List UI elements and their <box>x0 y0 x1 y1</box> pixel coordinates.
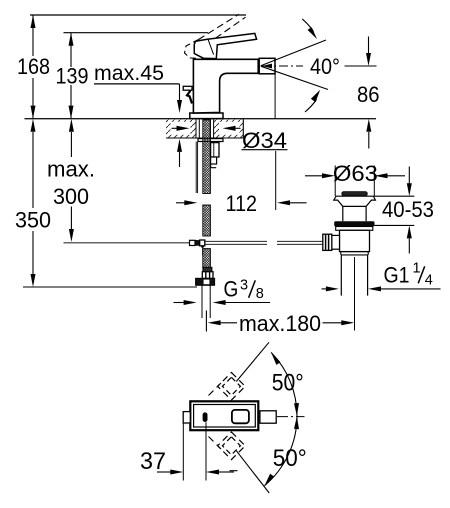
spray axis dash-dot <box>262 65 303 67</box>
dimension 37 extension lines <box>183 422 206 480</box>
swing axis upper diagonal <box>236 342 269 381</box>
lever handle raised (dashed) lower line <box>207 17 246 44</box>
svg-text:168: 168 <box>17 54 50 79</box>
svg-text:4: 4 <box>425 272 433 288</box>
dimension Ø34 arrows at deck hole <box>172 126 241 131</box>
hose end nut <box>196 278 215 285</box>
deck surface line <box>25 118 377 120</box>
handle arm dashes upper <box>209 383 222 396</box>
left supply tube below washer <box>196 142 197 193</box>
hose collar with ribs <box>202 272 213 279</box>
waste rubber washer band <box>334 221 374 226</box>
label G3/8 <box>224 277 264 302</box>
handle dash below lower diamond <box>230 470 238 472</box>
arrow halo left <box>171 122 191 135</box>
spray angle upper arc arrow <box>302 19 317 39</box>
dimension 86 top arrow <box>366 37 371 67</box>
max.45 lower arrow (deck underside) <box>177 139 182 167</box>
dimension max.180 <box>206 311 354 332</box>
braided hose lower segment <box>203 249 211 268</box>
faucet body with spout arm <box>193 59 258 113</box>
braided hose upper segment <box>203 120 211 194</box>
svg-text:Ø34: Ø34 <box>242 128 287 153</box>
pop-up rod tube right (double line) <box>205 241 323 244</box>
hose ferrule <box>203 267 212 271</box>
svg-text:50°: 50° <box>273 445 307 472</box>
svg-text:Ø63: Ø63 <box>333 161 378 186</box>
plan pop-up knob tab <box>183 412 190 423</box>
aerator (mousseur) box <box>259 58 275 74</box>
svg-text:50°: 50° <box>272 370 304 397</box>
dimension max300 line <box>69 119 74 242</box>
svg-text:max.180: max.180 <box>239 311 321 336</box>
handle rotated dashed diamond upper inner <box>222 377 240 395</box>
deck section hatching right of shank <box>214 120 243 138</box>
dimension 40-53 top arrow <box>407 167 412 197</box>
dimension 40-53 reference lines <box>373 196 414 225</box>
waste top flange <box>334 196 376 206</box>
handle rotated dashed diamond lower inner <box>222 437 240 455</box>
pop-up rod horizontal line left <box>64 242 190 244</box>
G3/8 thread outline <box>202 285 210 318</box>
lever handle raised (dashed) body outline <box>185 40 200 59</box>
svg-text:G: G <box>224 277 239 302</box>
svg-text:300: 300 <box>53 184 89 209</box>
dimension Ø63 extension lines <box>335 166 374 197</box>
svg-text:139: 139 <box>56 64 89 89</box>
waste knurled knob <box>323 234 332 250</box>
arrow halo right <box>219 122 240 135</box>
shank tube walls through deck <box>196 120 214 139</box>
dimension G3/8 arrows <box>174 300 271 305</box>
plan body outer <box>190 401 258 430</box>
dimension 40-53 bottom arrow <box>407 225 412 253</box>
swing angle upper arc <box>271 352 299 416</box>
deck section bottom line <box>166 137 243 139</box>
braided hose middle segment <box>203 205 211 236</box>
svg-text:40-53: 40-53 <box>382 197 434 222</box>
svg-text:max.45: max.45 <box>94 62 164 85</box>
dimension G1 1/4 arrows <box>322 286 441 291</box>
swing axis lower diagonal <box>236 451 269 493</box>
waste tailpipe <box>341 256 367 296</box>
spray angle lower line <box>261 66 328 89</box>
rod coupler at hose crossing <box>190 240 205 256</box>
svg-text:1: 1 <box>413 260 421 276</box>
spray angle upper line <box>261 40 326 66</box>
spray angle lower arc arrow <box>305 90 320 112</box>
dimension 112 arrows <box>176 200 307 205</box>
svg-text:37: 37 <box>140 448 166 475</box>
pop-up rod knob (side view) <box>183 86 192 103</box>
plan aerator stub <box>260 411 276 423</box>
deck section right edge <box>242 119 244 138</box>
handle rotated dashed diamond lower outer <box>218 432 246 460</box>
swing angle lower arc <box>265 416 300 486</box>
deck section hatching left of shank <box>166 120 196 138</box>
plan centre line <box>277 416 305 418</box>
bottom extension line (350 end) <box>23 286 197 288</box>
extension line handle top <box>64 32 209 34</box>
waste side port <box>332 235 340 249</box>
handle arm dashes lower <box>209 437 222 450</box>
waste plug disc <box>342 192 368 196</box>
svg-text:max.: max. <box>47 157 95 182</box>
handle rotated dashed diamond upper outer <box>218 373 246 401</box>
label max.45 with leader <box>94 62 182 113</box>
dimension 37 arrows <box>157 470 234 475</box>
dimension 86 bottom arrow <box>366 119 371 149</box>
svg-text:3: 3 <box>240 277 248 293</box>
plan body inner <box>194 405 256 428</box>
waste flange below washer <box>336 227 373 231</box>
svg-text:40°: 40° <box>310 54 340 79</box>
svg-text:G1: G1 <box>384 263 410 288</box>
waste body <box>340 230 370 251</box>
plan handle pivot blob <box>203 412 208 422</box>
label G1 1/4 <box>384 260 433 288</box>
faucet base plate <box>190 113 223 119</box>
plan cartridge square <box>232 410 249 423</box>
waste neck <box>343 206 366 221</box>
dimension 350 line <box>31 119 36 287</box>
dimension 86 extension line <box>345 65 377 67</box>
label Ø34 with leader <box>242 128 288 153</box>
lever handle inner edge <box>208 39 214 54</box>
svg-text:112: 112 <box>226 191 258 216</box>
lever handle raised (dashed) upper line <box>199 14 240 39</box>
extension line aerator to deck <box>274 74 276 119</box>
svg-text:86: 86 <box>357 82 380 107</box>
waste body joint rings <box>341 252 368 255</box>
mounting stud and nut stack <box>211 143 219 168</box>
lever handle (solid position) <box>194 33 256 58</box>
washer plate under deck <box>198 139 223 142</box>
dimension 168 line <box>31 15 36 119</box>
waste centre line <box>354 257 356 331</box>
svg-text:8: 8 <box>256 286 264 302</box>
extension line 112 right <box>275 151 277 210</box>
dimension Ø63 arrows <box>305 173 405 178</box>
dimension 139 line <box>69 33 74 119</box>
svg-text:350: 350 <box>15 208 51 233</box>
extension line top (spout max height) <box>30 14 246 16</box>
